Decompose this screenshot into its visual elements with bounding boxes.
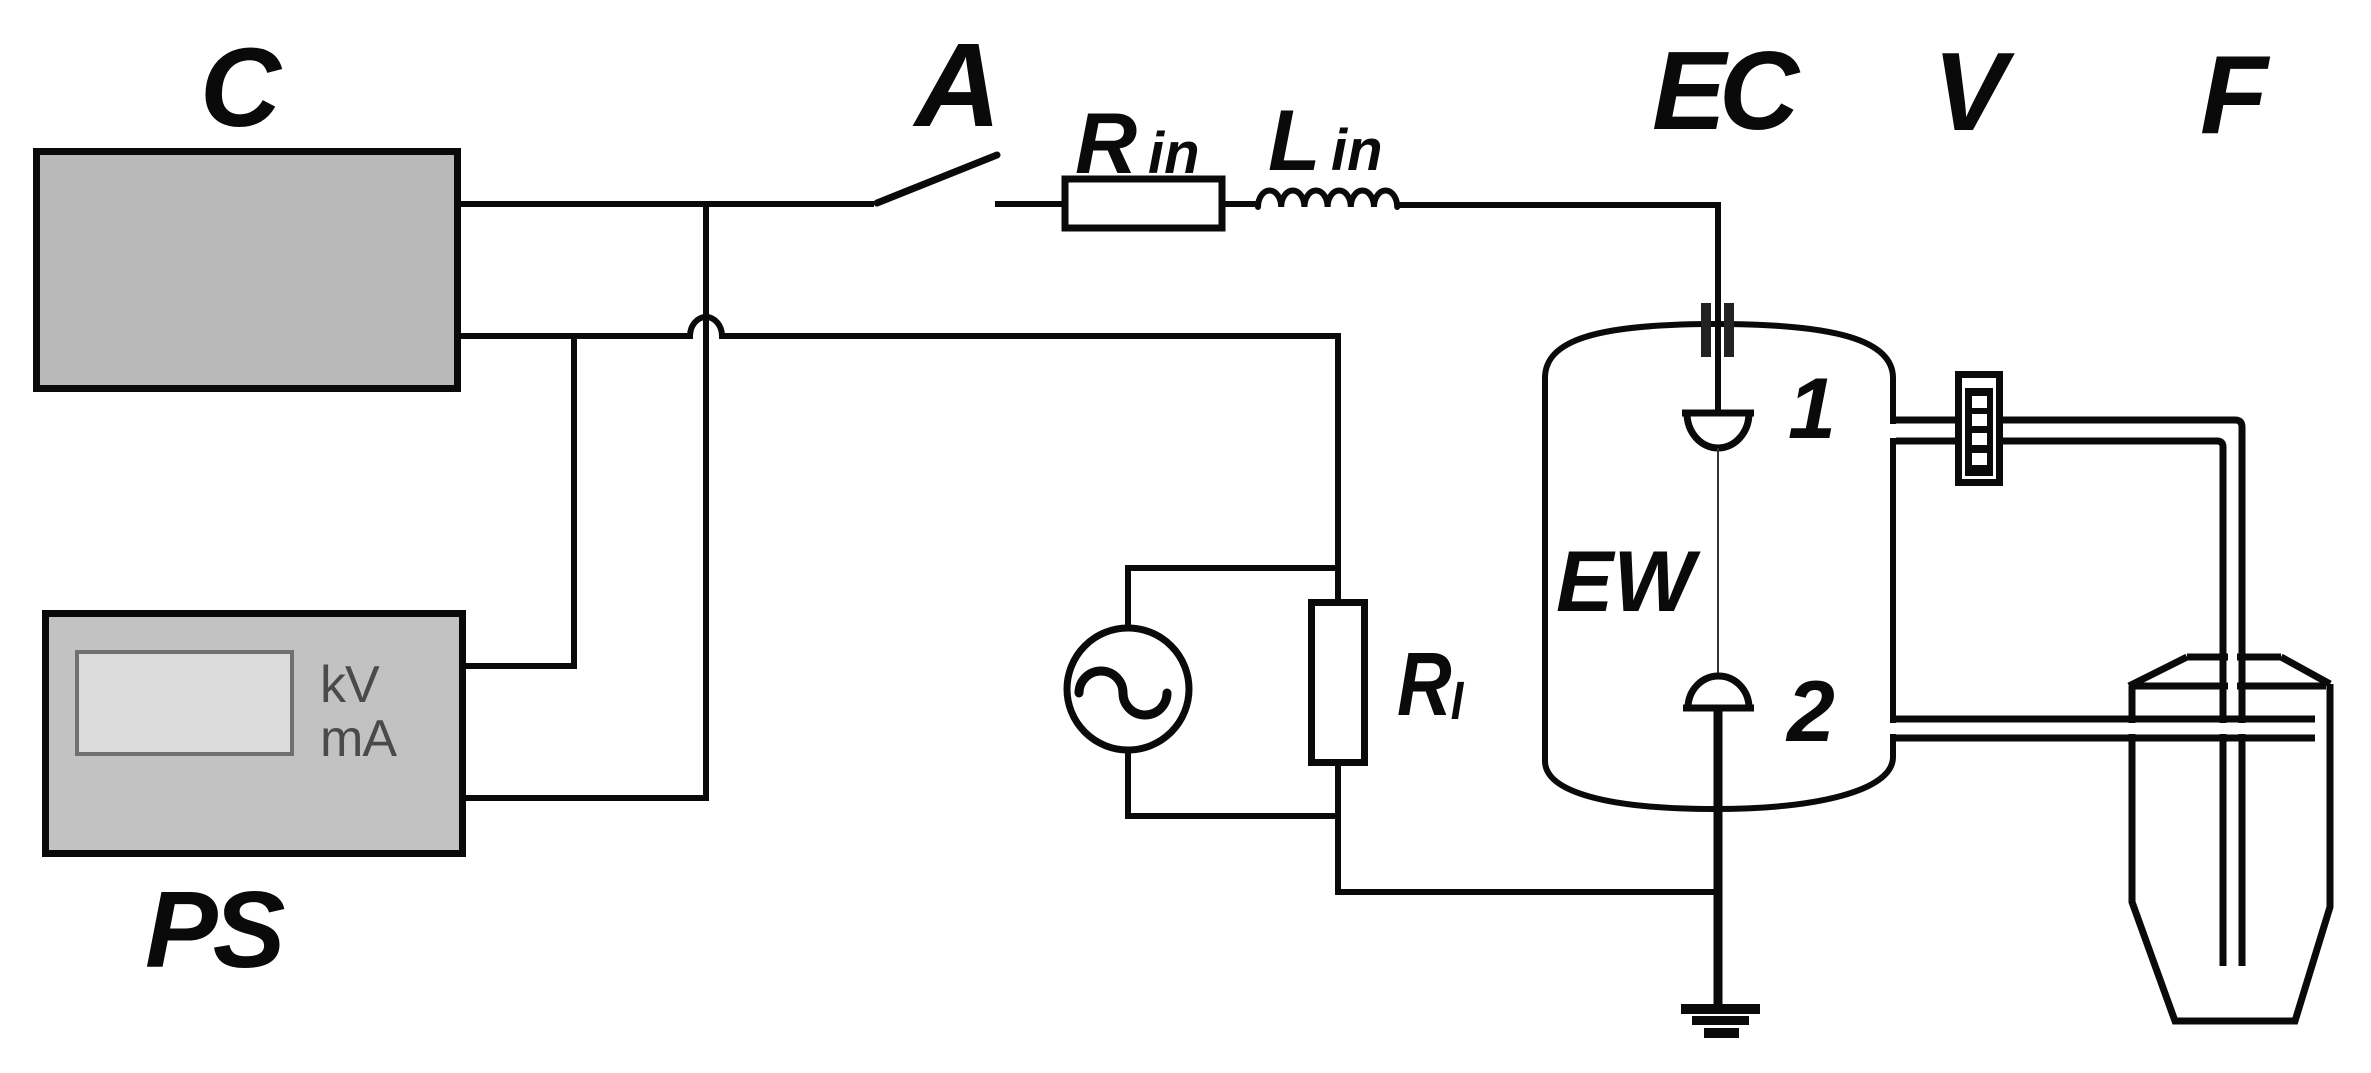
electrode 1 (1687, 413, 1749, 448)
label RI (1397, 634, 1464, 735)
resistor RI (1312, 603, 1365, 763)
svg-text:EC: EC (1652, 29, 1801, 153)
wire switch to resistor (995, 201, 1062, 207)
svg-text:kV: kV (320, 656, 380, 714)
electrode 2 (1688, 676, 1749, 708)
svg-text:in: in (1331, 118, 1383, 183)
svg-text:C: C (200, 25, 283, 150)
svg-text:L: L (1268, 93, 1321, 189)
svg-text:R: R (1397, 634, 1452, 735)
valve V body (1959, 375, 2000, 483)
feedthrough insulator (1701, 303, 1711, 357)
electrochemical cell EC vessel (1545, 324, 1893, 809)
svg-text:A: A (912, 19, 1001, 152)
wire AC source bottom loop (1128, 748, 1338, 816)
electrode 2 ground stem (1714, 708, 1723, 1004)
svg-text:EW: EW (1556, 534, 1701, 630)
svg-text:R: R (1075, 96, 1137, 192)
svg-text:1: 1 (1788, 361, 1836, 457)
svg-text:F: F (2200, 33, 2271, 157)
flask F outline (2129, 657, 2330, 1021)
liquid return tube walls (1896, 719, 2315, 738)
AC source G (1067, 628, 1189, 750)
wire hop branch down to RI (1335, 333, 1341, 602)
power supply box PS (46, 614, 463, 854)
svg-text:in: in (1148, 121, 1200, 186)
inductor Lin (1258, 190, 1397, 207)
svg-text:mA: mA (320, 710, 397, 768)
switch A arm (877, 155, 997, 203)
resistor Rin (1065, 179, 1222, 228)
wire AC source top loop (1128, 568, 1338, 630)
wire C top output to switch (461, 201, 874, 207)
PS display window (77, 652, 292, 754)
gas tube from cell through valve to flask (interior) (1890, 424, 2237, 966)
gas tube outer wall (1896, 420, 2242, 966)
label Lin (1268, 93, 1383, 189)
discharge gap line (1717, 448, 1719, 678)
wire inductor to cell electrode 1 (1397, 205, 1718, 418)
wire RI bottom to electrode 2 stem (1338, 760, 1722, 892)
gas tube inner wall (1896, 441, 2223, 966)
wire PS lower terminal riser (466, 201, 706, 798)
controller box C (37, 152, 458, 389)
svg-text:2: 2 (1785, 664, 1835, 760)
svg-text:PS: PS (145, 869, 285, 991)
wire resistor to inductor (1225, 201, 1258, 207)
liquid return tube interior (1890, 723, 2313, 734)
svg-text:I: I (1451, 670, 1465, 731)
wire C bottom output with hop over (461, 317, 1338, 336)
wire PS upper terminal riser (466, 333, 574, 666)
svg-text:V: V (1933, 30, 2015, 154)
label Rin (1075, 96, 1200, 192)
ground symbol (1681, 1004, 1760, 1014)
